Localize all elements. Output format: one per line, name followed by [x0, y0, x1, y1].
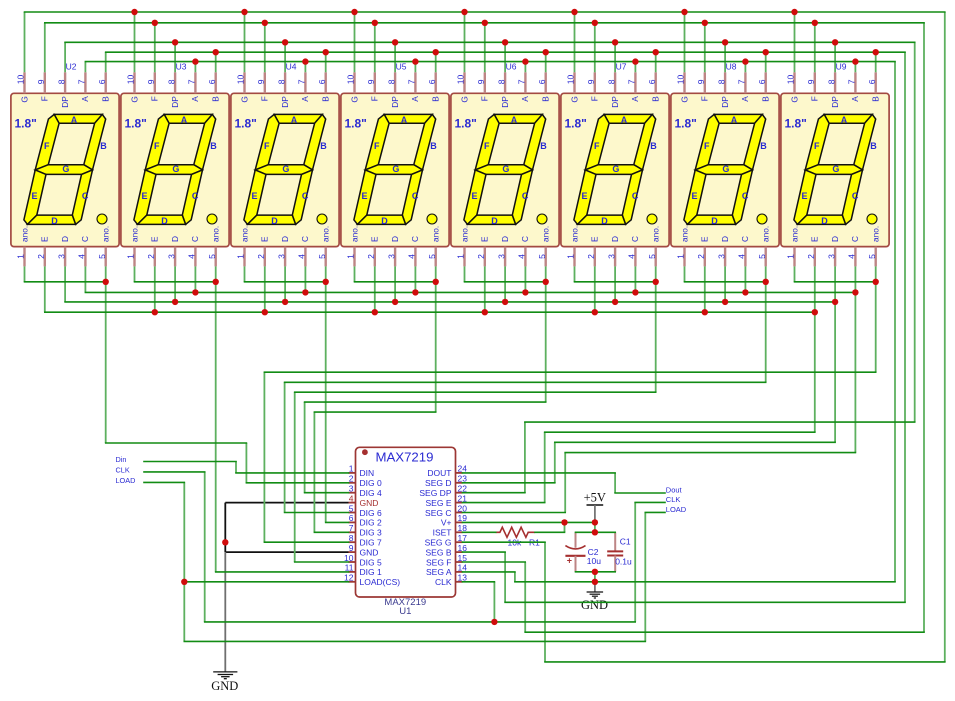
junction U6 B bus [543, 49, 549, 55]
wire segment-E bottom bus [45, 311, 815, 313]
wire U7 anode jumper [655, 266, 657, 281]
junction U9 D bus [832, 299, 838, 305]
wire cap bottom rail [576, 571, 616, 573]
wire U6 pin 6 riser [545, 52, 547, 72]
svg-text:LOAD: LOAD [666, 505, 687, 514]
junction GND [222, 539, 228, 545]
svg-text:GND: GND [581, 598, 608, 612]
svg-text:DIN: DIN [360, 468, 375, 478]
net DIG7: U9 anode to U1 pin 8 [875, 282, 877, 372]
wire segment-A top bus [85, 61, 895, 63]
wire U3 pin 7 riser [194, 62, 196, 73]
wire U5 pin 10 riser [354, 12, 356, 72]
wire U8 pin 8 riser [724, 42, 726, 72]
net DIG3: U5 anode to U1 pin 7 [314, 531, 348, 533]
svg-text:DIG 5: DIG 5 [360, 557, 382, 567]
wire U6 pin 8 riser [504, 42, 506, 72]
wire U8 anode jumper [685, 281, 766, 283]
junction U7 F bus [592, 20, 598, 26]
wire segment-D bottom bus [65, 301, 835, 303]
wire U5 anode jumper [354, 266, 356, 281]
net DIG3: U5 anode to U1 pin 7 [314, 411, 435, 413]
wire U9 pin 10 riser [794, 12, 796, 72]
svg-text:SEG B: SEG B [426, 547, 452, 557]
resistor R1 18k/10k on ISET [535, 531, 565, 533]
net DIG4: U6 anode to U1 pin 3 [304, 402, 306, 493]
net SEG F: U1 pin 15 bottom run [525, 631, 924, 633]
junction U9 F bus [812, 20, 818, 26]
net SEG B: U1 pin 16 bottom run [463, 551, 506, 553]
wire U2 anode jumper [105, 266, 107, 281]
junction gnd/segA [592, 579, 598, 585]
junction U4 G bus [241, 9, 247, 15]
junction U8 G bus [681, 9, 687, 15]
junction U9 anode [873, 279, 879, 285]
wire U1 pin 13 CLK [493, 582, 495, 622]
junction U9 DP bus [832, 39, 838, 45]
resistor R1 18k/10k on ISET [463, 531, 496, 533]
junction U4 F bus [262, 20, 268, 26]
junction U4 A bus [302, 58, 308, 64]
junction U4 B bus [323, 49, 329, 55]
svg-text:SEG DP: SEG DP [419, 488, 451, 498]
U1 pin 10 stub [349, 561, 356, 563]
wire segment-G top bus [25, 11, 945, 13]
wire U4 anode jumper [245, 281, 326, 283]
net DIG5: U7 anode to U1 pin 10 [655, 282, 657, 392]
wire U6 pin 4 drop [524, 266, 526, 292]
net SEG D: U1 pin 23 to D bus [834, 302, 836, 442]
wire U3 pin 10 riser [134, 12, 136, 72]
net SEG G: U1 pin 17 bottom run [545, 661, 945, 663]
wire cap top rail [576, 531, 616, 533]
wire segment-DP top bus [65, 41, 915, 43]
net DIG7: U9 anode to U1 pin 8 [264, 541, 348, 543]
net DIG0: U2 anode to U1 pin 2 [245, 443, 247, 483]
svg-text:CLK: CLK [116, 465, 130, 474]
svg-text:DIG 3: DIG 3 [360, 528, 382, 538]
wire U2 pin 9 riser [44, 23, 46, 73]
wire segment-C bottom bus [85, 291, 855, 293]
wire U4 pin 9 riser [264, 23, 266, 73]
net DIG4: U6 anode to U1 pin 3 [545, 282, 547, 402]
net DIG7: U9 anode to U1 pin 8 [264, 371, 875, 373]
wire U2 pin 3 drop [64, 266, 66, 302]
net SEG E: U1 pin 21 to E bus [463, 502, 545, 504]
wire GND U1 pin 4 [225, 502, 348, 504]
svg-text:SEG E: SEG E [426, 498, 452, 508]
net DOUT: U1 pin 24 to Dout label [615, 492, 665, 494]
net SEG B: U1 pin 16 bottom run [504, 552, 506, 602]
wire U7 pin 4 drop [634, 266, 636, 292]
svg-text:SEG D: SEG D [425, 478, 451, 488]
net SEG B: U1 pin 16 bottom run [904, 52, 906, 602]
net DIG6: U8 anode to U1 pin 5 [285, 381, 766, 383]
junction U6 G bus [461, 9, 467, 15]
net DIG5: U7 anode to U1 pin 10 [295, 391, 656, 393]
U1 pin 23 stub [456, 482, 463, 484]
svg-text:GND: GND [211, 679, 238, 693]
wire U8 anode jumper [765, 266, 767, 281]
wire LOAD left run [183, 482, 185, 641]
net SEG G: U1 pin 17 bottom run [944, 12, 946, 662]
svg-text:DIG 4: DIG 4 [360, 488, 382, 498]
net SEG A: U1 pin 14 bottom run [514, 572, 516, 582]
junction U7 A bus [632, 58, 638, 64]
net DIG1: U3 anode to U1 pin 11 [215, 282, 217, 572]
net SEG C: U1 pin 20 to C bus [854, 292, 856, 452]
wire U4 pin 2 drop [264, 266, 266, 312]
wire U7 pin 7 riser [634, 62, 636, 73]
junction U2 anode [103, 279, 109, 285]
svg-text:CLK: CLK [435, 577, 452, 587]
junction U9 C bus [852, 289, 858, 295]
svg-text:+: + [567, 556, 572, 566]
7-seg display U2 [11, 72, 119, 266]
7-seg display U5 [341, 72, 449, 266]
net SEG G: U1 pin 17 bottom run [544, 542, 546, 662]
U1 pin 17 stub [456, 541, 463, 543]
svg-text:Din: Din [116, 455, 127, 464]
wire segment-B top bus [106, 51, 905, 53]
junction U7 anode [653, 279, 659, 285]
U1 pin 3 stub [349, 492, 356, 494]
svg-text:2: 2 [349, 474, 354, 484]
svg-text:3: 3 [349, 484, 354, 494]
U1 pin 11 stub [349, 571, 356, 573]
net SEG D: U1 pin 23 to D bus [463, 482, 555, 484]
net DIG2: U4 anode to U1 pin 6 [325, 282, 327, 523]
wire U8 pin 2 drop [704, 266, 706, 312]
svg-text:U6: U6 [506, 61, 517, 71]
wire U5 pin 2 drop [374, 266, 376, 312]
wire GND vertical [224, 503, 226, 552]
7-seg display U8 [671, 72, 779, 266]
wire U9 pin 2 drop [814, 266, 816, 312]
svg-text:6: 6 [349, 513, 354, 523]
svg-text:0.1u: 0.1u [615, 557, 632, 567]
net SEG E: U1 pin 21 to E bus [814, 312, 816, 432]
wire U7 pin 3 drop [614, 266, 616, 302]
junction U8 DP bus [722, 39, 728, 45]
wire CLK left run [144, 471, 205, 473]
net SEG A: U1 pin 14 bottom run [894, 62, 896, 582]
svg-text:CLK: CLK [666, 495, 681, 504]
junction U9 G bus [791, 9, 797, 15]
net SEG DP: U1 pin 22 to DP bus [463, 492, 525, 494]
junction U9 A bus [852, 58, 858, 64]
U1 pin 2 stub [349, 482, 356, 484]
net DIG0: U2 anode to U1 pin 2 [246, 482, 348, 484]
wire U7 pin 10 riser [574, 12, 576, 72]
U1 pin 14 stub [456, 571, 463, 573]
wire U3 anode jumper [134, 266, 136, 281]
wire U3 pin 4 drop [194, 266, 196, 292]
junction U4 E bus [262, 309, 268, 315]
U1 pin 22 stub [456, 492, 463, 494]
wire U2 anode jumper [25, 281, 106, 283]
wire U9 pin 4 drop [854, 266, 856, 292]
wire U6 pin 10 riser [464, 12, 466, 72]
wire GND U1 pin 9 [225, 551, 348, 553]
wire U8 pin 4 drop [744, 266, 746, 292]
wire U4 anode jumper [325, 266, 327, 281]
wire cap top rail [594, 522, 596, 532]
net DIG5: U7 anode to U1 pin 10 [294, 392, 296, 562]
junction U6 A bus [522, 58, 528, 64]
svg-text:+5V: +5V [584, 491, 606, 505]
net SEG F: U1 pin 15 bottom run [463, 561, 526, 563]
junction U5 DP bus [392, 39, 398, 45]
wire U5 pin 8 riser [394, 42, 396, 72]
wire U1 pin 13 CLK [463, 581, 495, 583]
junction U5 D bus [392, 299, 398, 305]
wire U5 pin 6 riser [435, 52, 437, 72]
svg-text:U4: U4 [286, 61, 297, 71]
junction cap gnd [592, 569, 598, 575]
svg-text:DIG 7: DIG 7 [360, 538, 382, 548]
junction U5 A bus [412, 58, 418, 64]
wire U6 pin 9 riser [484, 23, 486, 73]
junction U7 B bus [653, 49, 659, 55]
net SEG DP: U1 pin 22 to DP bus [914, 42, 916, 422]
U1 pin 5 stub [349, 512, 356, 514]
7-seg display U4 [231, 72, 339, 266]
net DIG1: U3 anode to U1 pin 11 [216, 571, 349, 573]
junction U7 G bus [571, 9, 577, 15]
wire U8 pin 7 riser [744, 62, 746, 73]
U1 pin 9 stub [349, 551, 356, 553]
wire U6 anode jumper [465, 281, 546, 283]
wire U9 pin 7 riser [854, 62, 856, 73]
wire U5 pin 4 drop [414, 266, 416, 292]
net SEG E: U1 pin 21 to E bus [545, 431, 815, 433]
svg-text:V+: V+ [441, 518, 452, 528]
svg-text:9: 9 [349, 543, 354, 553]
wire U4 pin 4 drop [304, 266, 306, 292]
svg-text:DIG 2: DIG 2 [360, 518, 382, 528]
junction U3 F bus [152, 20, 158, 26]
net SEG E: U1 pin 21 to E bus [544, 432, 546, 502]
capacitor C1 0.1u [614, 532, 616, 551]
svg-text:U3: U3 [176, 61, 187, 71]
junction cap rail [592, 529, 598, 535]
wire U2 pin 4 drop [84, 266, 86, 292]
capacitor C2 10u electrolytic [575, 532, 577, 548]
wire U9 anode jumper [794, 266, 796, 281]
net V+: U1 pin 19 to +5V [463, 521, 595, 523]
wire to ground symbol [224, 552, 226, 672]
net SEG G: U1 pin 17 bottom run [463, 541, 546, 543]
U1 pin 18 stub [456, 531, 463, 533]
junction U6 DP bus [502, 39, 508, 45]
junction U8 E bus [702, 309, 708, 315]
wire U2 pin 8 riser [64, 42, 66, 72]
junction U3 E bus [152, 309, 158, 315]
net DIG7: U9 anode to U1 pin 8 [263, 372, 265, 542]
wire U3 pin 8 riser [174, 42, 176, 72]
U1 pin 6 stub [349, 521, 356, 523]
junction U6 D bus [502, 299, 508, 305]
net DOUT: U1 pin 24 to Dout label [614, 473, 616, 493]
svg-text:8: 8 [349, 533, 354, 543]
7-seg display U3 [121, 72, 229, 266]
wire U4 pin 6 riser [325, 52, 327, 72]
wire CLK left run [205, 621, 636, 623]
wire U2 pin 6 riser [105, 52, 107, 72]
junction U6 anode [543, 279, 549, 285]
svg-text:GND: GND [360, 498, 379, 508]
U1 pin 16 stub [456, 551, 463, 553]
U1 pin 7 stub [349, 531, 356, 533]
7-seg display U7 [561, 72, 669, 266]
svg-text:DIG 0: DIG 0 [360, 478, 382, 488]
wire U9 anode jumper [795, 281, 876, 283]
wire U7 anode jumper [574, 266, 576, 281]
wire U7 pin 9 riser [594, 23, 596, 73]
wire CLK left run [635, 501, 665, 503]
net SEG A: U1 pin 14 bottom run [515, 581, 895, 583]
svg-text:7: 7 [349, 523, 354, 533]
wire U7 pin 8 riser [614, 42, 616, 72]
junction U5 F bus [372, 20, 378, 26]
net SEG D: U1 pin 23 to D bus [554, 442, 556, 483]
U1 pin 19 stub [456, 521, 463, 523]
7-seg display U6 [451, 72, 559, 266]
wire U4 pin 7 riser [304, 62, 306, 73]
resistor R1 18k/10k on ISET [496, 527, 535, 537]
junction U6 F bus [482, 20, 488, 26]
wire U5 pin 7 riser [414, 62, 416, 73]
net DIG0: U2 anode to U1 pin 2 [105, 282, 107, 443]
wire U8 pin 9 riser [704, 23, 706, 73]
wire U3 anode jumper [215, 266, 217, 281]
ground symbol bottom-left [213, 671, 237, 673]
wire U6 anode jumper [545, 266, 547, 281]
wire LOAD left run [144, 481, 184, 483]
junction U8 B bus [763, 49, 769, 55]
wire U3 pin 3 drop [174, 266, 176, 302]
net DIG3: U5 anode to U1 pin 7 [313, 412, 315, 532]
pin-1 mark [362, 449, 368, 455]
svg-text:LOAD(CS): LOAD(CS) [360, 577, 401, 587]
svg-text:C1: C1 [620, 536, 631, 546]
wire U3 pin 9 riser [154, 23, 156, 73]
wire U3 anode jumper [135, 281, 216, 283]
net SEG C: U1 pin 20 to C bus [565, 452, 855, 454]
junction U8 F bus [702, 20, 708, 26]
wire segment-F top bus [45, 22, 924, 24]
svg-text:ISET: ISET [433, 528, 452, 538]
junction U9 E bus [812, 309, 818, 315]
U1 pin 4 stub [349, 502, 356, 504]
wire R1 to V+ [564, 522, 566, 532]
junction U8 anode [763, 279, 769, 285]
U1 pin 1 stub [349, 472, 356, 474]
wire U9 pin 8 riser [834, 42, 836, 72]
svg-text:GND: GND [360, 547, 379, 557]
svg-text:5: 5 [349, 503, 354, 513]
net DIG0: U2 anode to U1 pin 2 [106, 442, 247, 444]
junction U3 G bus [131, 9, 137, 15]
wire U7 pin 6 riser [655, 52, 657, 72]
wire U9 pin 9 riser [814, 23, 816, 73]
wire Din to U1 pin 1 [144, 461, 236, 463]
wire LOAD left run [644, 512, 646, 641]
net SEG D: U1 pin 23 to D bus [555, 441, 835, 443]
wire U8 pin 6 riser [765, 52, 767, 72]
wire LOAD left run [184, 640, 645, 642]
net SEG DP: U1 pin 22 to DP bus [524, 422, 526, 493]
wire U2 pin 7 riser [84, 62, 86, 73]
net DIG5: U7 anode to U1 pin 10 [295, 561, 349, 563]
junction U3 B bus [213, 49, 219, 55]
svg-text:SEG C: SEG C [425, 508, 451, 518]
wire U7 anode jumper [575, 281, 656, 283]
wire U6 pin 7 riser [524, 62, 526, 73]
junction U7 D bus [612, 299, 618, 305]
svg-text:DIG 1: DIG 1 [360, 567, 382, 577]
junction CLK net [491, 619, 497, 625]
wire U5 pin 3 drop [394, 266, 396, 302]
wire U1 pin 12 LOAD(CS) [184, 581, 348, 583]
U1 pin 12 stub [349, 581, 356, 583]
junction U8 C bus [742, 289, 748, 295]
U1 pin 20 stub [456, 512, 463, 514]
wire CLK left run [204, 472, 206, 622]
junction U5 G bus [351, 9, 357, 15]
net SEG F: U1 pin 15 bottom run [524, 562, 526, 632]
svg-text:1: 1 [349, 464, 354, 474]
svg-text:4: 4 [349, 493, 354, 503]
junction U4 C bus [302, 289, 308, 295]
ground symbol right [594, 582, 596, 592]
svg-text:LOAD: LOAD [116, 476, 136, 485]
wire U4 pin 8 riser [284, 42, 286, 72]
junction U4 D bus [282, 299, 288, 305]
net DIG6: U8 anode to U1 pin 5 [765, 282, 767, 383]
junction U3 A bus [192, 58, 198, 64]
wire U6 anode jumper [464, 266, 466, 281]
net DIG3: U5 anode to U1 pin 7 [435, 282, 437, 412]
junction U5 C bus [412, 289, 418, 295]
junction U5 anode [433, 279, 439, 285]
svg-text:U1: U1 [399, 606, 411, 617]
net DOUT: U1 pin 24 to Dout label [463, 472, 616, 474]
wire U5 pin 9 riser [374, 23, 376, 73]
wire U9 anode jumper [875, 266, 877, 281]
wire Din to U1 pin 1 [235, 462, 237, 473]
svg-text:DIG 6: DIG 6 [360, 508, 382, 518]
wire U8 pin 3 drop [724, 266, 726, 302]
7-seg display U9 [781, 72, 889, 266]
junction U4 anode [323, 279, 329, 285]
svg-text:U2: U2 [66, 61, 77, 71]
svg-text:MAX7219: MAX7219 [376, 449, 434, 464]
svg-text:U8: U8 [726, 61, 737, 71]
wire U5 anode jumper [355, 281, 436, 283]
wire U6 pin 2 drop [484, 266, 486, 312]
net SEG DP: U1 pin 22 to DP bus [525, 421, 915, 423]
net SEG B: U1 pin 16 bottom run [505, 601, 905, 603]
net DIG6: U8 anode to U1 pin 5 [285, 512, 349, 514]
svg-text:SEG A: SEG A [426, 567, 452, 577]
junction U8 D bus [722, 299, 728, 305]
junction U8 A bus [742, 58, 748, 64]
net SEG C: U1 pin 20 to C bus [564, 453, 566, 513]
junction U6 C bus [522, 289, 528, 295]
junction U6 E bus [482, 309, 488, 315]
